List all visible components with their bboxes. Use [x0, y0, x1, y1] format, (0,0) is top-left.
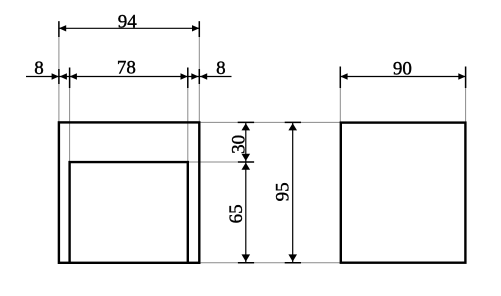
- svg-text:8: 8: [34, 58, 44, 79]
- svg-text:90: 90: [393, 59, 412, 80]
- svg-text:30: 30: [229, 135, 250, 154]
- svg-text:94: 94: [118, 12, 138, 33]
- svg-text:95: 95: [273, 182, 294, 201]
- svg-text:8: 8: [216, 58, 226, 79]
- svg-text:65: 65: [226, 204, 247, 223]
- svg-text:78: 78: [117, 58, 136, 79]
